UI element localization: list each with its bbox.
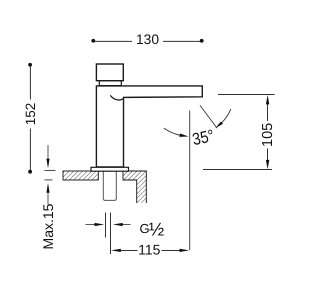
svg-text:115: 115: [138, 242, 161, 258]
svg-text:130: 130: [136, 32, 159, 47]
svg-text:Max.15: Max.15: [40, 203, 56, 249]
svg-text:105: 105: [260, 123, 276, 147]
svg-text:152: 152: [23, 103, 38, 126]
svg-text:½: ½: [149, 219, 164, 240]
